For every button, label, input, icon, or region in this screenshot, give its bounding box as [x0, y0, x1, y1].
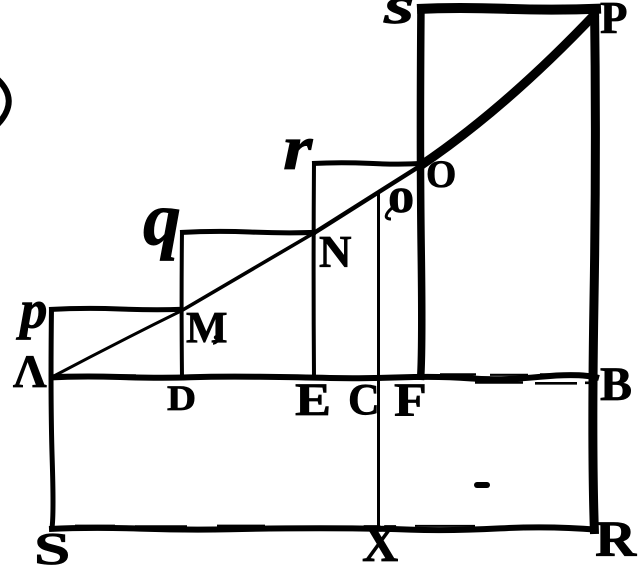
svg-text:C: C [348, 375, 380, 424]
wire D vertical [180, 230, 184, 378]
stray printed dash [474, 482, 490, 488]
curve segment N-O [314, 166, 420, 233]
wire baseline A-B [49, 375, 599, 379]
curve segment M-N [181, 233, 314, 311]
wire top line s-P [417, 8, 601, 10]
wire bottom line roughness [75, 525, 475, 528]
wire p rectangle top [49, 308, 183, 309]
svg-text:N: N [319, 227, 352, 277]
wire F vertical [420, 4, 421, 380]
wire q rectangle top [180, 231, 316, 232]
wire baseline roughness [440, 373, 570, 376]
curve segment O-P (thick) [420, 13, 596, 166]
svg-text:R: R [595, 511, 637, 566]
node label o tail [386, 208, 392, 219]
wire r rectangle top [312, 163, 423, 164]
wire left vertical A-S [51, 307, 53, 531]
svg-text:M: M [186, 303, 228, 352]
svg-text:B: B [600, 358, 632, 411]
svg-text:P: P [600, 0, 628, 43]
svg-text:r: r [283, 113, 313, 183]
svg-text:S: S [34, 524, 70, 566]
svg-text:Λ: Λ [13, 346, 47, 398]
svg-text:p: p [16, 279, 48, 340]
svg-text:E: E [295, 373, 331, 425]
svg-text:X: X [362, 514, 399, 566]
curve segment A-M [52, 311, 181, 377]
wire right vertical P-B-R [593, 5, 596, 534]
svg-text:,: , [213, 314, 221, 347]
svg-text:D: D [167, 379, 196, 419]
svg-text:o: o [388, 168, 414, 224]
partial glyph at left page edge [0, 77, 9, 126]
wire C vertical through o and X [377, 193, 380, 531]
svg-text:F: F [394, 375, 427, 428]
svg-text:O: O [426, 153, 456, 196]
svg-text:q: q [143, 177, 181, 261]
svg-text:s: s [383, 0, 415, 35]
wire bottom line S-R [49, 527, 598, 530]
wire E vertical [312, 161, 316, 378]
